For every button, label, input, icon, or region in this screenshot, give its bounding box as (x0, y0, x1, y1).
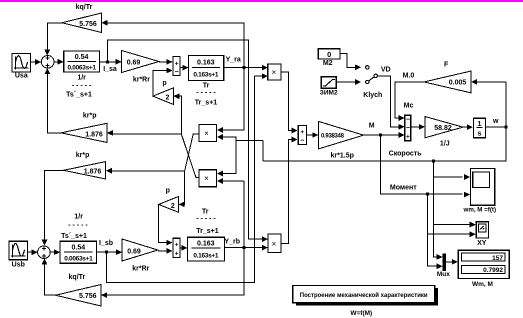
wire Y_rb up to M2 in2 (243, 181, 245, 248)
wire sum M out (306, 134, 313, 136)
svg-text:Mc: Mc (404, 103, 414, 110)
wire w feedback to products (263, 127, 506, 161)
constant block M2 (value 0) (318, 49, 340, 59)
wire M to XY in2 (428, 233, 471, 235)
gain p (b) value 2 (159, 197, 179, 213)
svg-text:Ts´_s+1: Ts´_s+1 (61, 233, 87, 240)
wire sum Mc out (411, 126, 420, 128)
svg-text:- - - - -: - - - - - (72, 83, 92, 90)
svg-text:−: − (175, 69, 179, 76)
svg-text:1.876: 1.876 (84, 169, 102, 176)
svg-text:w: w (492, 118, 499, 125)
svg-text:0.69: 0.69 (127, 59, 141, 66)
svg-text:Tr_s+1: Tr_s+1 (196, 228, 218, 235)
transfer function block Tr (b): 0.163/(0.163s+1) (188, 237, 225, 261)
source block Usa (sine wave) (12, 54, 31, 73)
product block Ma (Y_ra x I_sb) (268, 64, 281, 80)
wire crossing H2 to kr*p b (112, 170, 185, 172)
svg-text:157: 157 (492, 255, 503, 262)
wire kr*p a to sum A1 (47, 70, 61, 133)
wire Y_ra down to product M1 (217, 68, 244, 130)
wire crossing H1 to kr*p a (113, 133, 182, 135)
wire M down to Mux in2 (428, 194, 438, 266)
wire sum B1 to TF 1/r b (50, 251, 59, 253)
svg-text:−: − (406, 117, 410, 124)
svg-text:kr*1.5p: kr*1.5p (331, 153, 354, 160)
svg-text:0: 0 (327, 50, 331, 59)
integrator block 1/s (474, 118, 486, 138)
wire w out (486, 126, 506, 128)
wire gain a to sum A2 (159, 61, 172, 63)
transfer function block Tr (a): 0.163/(0.163s+1) (188, 56, 223, 81)
wire I_sb out (97, 251, 122, 253)
svg-text:+: + (406, 134, 410, 141)
svg-text:M.0: M.0 (403, 73, 415, 80)
svg-text:kr*Rr: kr*Rr (133, 77, 150, 84)
svg-text:×: × (204, 174, 209, 183)
wire w to M2 in1 (217, 140, 235, 173)
wire M.0 to sum Mc (395, 82, 424, 118)
gain 1/J 58.82 (425, 117, 463, 138)
sum block B2 (+ +) (173, 238, 180, 257)
ramp source block ZI M2 (321, 77, 336, 89)
svg-text:M: M (369, 122, 375, 129)
svg-text:wm, M =f(t): wm, M =f(t) (463, 207, 496, 214)
svg-text:0.0063s+1: 0.0063s+1 (67, 65, 96, 72)
svg-text:0.938348: 0.938348 (321, 134, 345, 140)
svg-text:Ts´_s+1: Ts´_s+1 (66, 92, 92, 99)
svg-text:W=f(M): W=f(M) (350, 310, 372, 317)
wire w up to F (505, 82, 507, 127)
svg-text:5.756: 5.756 (79, 21, 97, 28)
svg-text:+: + (175, 250, 179, 257)
wire Mux to display (446, 261, 453, 263)
title box shadow (296, 288, 438, 305)
wire Y_ra to kq/Tr a (107, 23, 244, 68)
svg-text:F: F (444, 62, 449, 69)
wire kr*p b to sum B1 (45, 170, 64, 244)
svg-text:+: + (175, 60, 179, 67)
svg-text:5.756: 5.756 (79, 293, 97, 300)
svg-text:−: − (300, 138, 304, 145)
wire 1/J to integrator (463, 126, 468, 128)
sum block B1 (round) (38, 246, 51, 259)
svg-text:p: p (166, 188, 170, 195)
wire w down to Mux in1 (434, 161, 438, 257)
wire gain 2b to sum B2 (159, 204, 172, 242)
product block M2 (w x Y_rb), inputs on right (199, 170, 217, 187)
wire Mc to sum Mc (377, 76, 399, 127)
svg-text:−: − (406, 125, 410, 132)
wire to gain 2a input (174, 96, 181, 134)
svg-text:1/J: 1/J (440, 141, 450, 148)
svg-text:kr*p: kr*p (76, 152, 90, 159)
gain F 0.005 (424, 71, 471, 93)
wire Usa to sum A1 (31, 61, 42, 63)
wire gain b to sum B2 (158, 250, 172, 252)
svg-text:Mux: Mux (437, 271, 450, 278)
svg-text:0.0063s+1: 0.0063s+1 (64, 255, 93, 262)
sum block A2 (+ -) (173, 57, 180, 76)
wire w jog (236, 139, 263, 141)
svg-text:Usb: Usb (12, 262, 25, 269)
svg-text:0.7992: 0.7992 (483, 267, 503, 274)
gain kq/Tr (a) 5.756 (62, 13, 102, 33)
svg-text:×: × (272, 240, 277, 249)
svg-text:1.876: 1.876 (85, 132, 103, 139)
wire Y_rb to M2 in2 (217, 180, 244, 182)
svg-text:kr*p: kr*p (83, 113, 97, 120)
gain p (a) value 2 (153, 88, 173, 105)
svg-text:s: s (478, 131, 482, 138)
wire Y_rb to kq/Tr b (107, 248, 244, 296)
wire sum A2 to TF Tr a (180, 67, 188, 69)
product block M1 (w x Y_ra), inputs on right (199, 125, 217, 142)
wire sum A1 to TF 1/r a (54, 61, 63, 63)
wire Y_ra to product Ma (224, 67, 263, 69)
sum block A1 (round) (41, 56, 54, 69)
svg-text:1/r: 1/r (74, 214, 83, 221)
svg-text:Y_rb: Y_rb (224, 238, 240, 245)
svg-text:I_sa: I_sa (103, 66, 117, 73)
wire to gain 2b input (179, 171, 184, 205)
svg-text:Tr_s+1: Tr_s+1 (195, 100, 217, 107)
svg-text:- - - - -: - - - - - (196, 216, 216, 223)
wire kq/Tr a to sum A1 (47, 23, 62, 55)
svg-text:58.82: 58.82 (434, 125, 452, 132)
source block Usb (sine wave) (9, 241, 28, 259)
wire w to M1 in2 (217, 137, 235, 140)
top magenta window border (0, 0, 523, 2)
svg-text:0.163: 0.163 (197, 240, 215, 247)
wire Usb to sum B1 (28, 251, 38, 253)
svg-text:×: × (271, 68, 276, 77)
sum block M (+ -) (298, 126, 306, 145)
svg-text:- - - - -: - - - - - (68, 222, 88, 229)
svg-text:0.54: 0.54 (71, 244, 85, 251)
wire sum B2 to TF Tr b (180, 247, 187, 249)
sum block Mc (- - +) (405, 115, 411, 140)
wire ZI M2 to switch (336, 81, 356, 83)
svg-text:2: 2 (166, 94, 170, 101)
wire w to F (477, 81, 506, 83)
svg-text:1/r: 1/r (77, 75, 86, 82)
svg-text:I_sb: I_sb (99, 240, 113, 247)
svg-text:0.005: 0.005 (449, 80, 467, 87)
gain kr*Rr (a) 0.69 (122, 51, 159, 73)
wire M2 to switch (340, 54, 356, 68)
svg-text:Klych: Klych (363, 92, 382, 99)
scope block wm,M=f(t) (471, 169, 495, 206)
display block Wm,M (458, 250, 509, 278)
svg-text:0.163s+1: 0.163s+1 (193, 253, 219, 260)
svg-text:XY: XY (477, 240, 487, 247)
XY graph block (476, 222, 488, 238)
wire w jog vertical (262, 140, 264, 161)
svg-text:kr*Rr: kr*Rr (132, 266, 149, 273)
svg-text:0.163s+1: 0.163s+1 (193, 71, 219, 78)
wire w to scope in1 (434, 176, 463, 178)
gain kr*p (a) 1.876 (61, 123, 107, 142)
wire Mb out to sum M minus (281, 140, 293, 244)
wire I_sb feed to product Ma (107, 76, 255, 282)
wire Y_rb to product Mb (225, 247, 263, 249)
wire gain 2a to sum A2 (153, 71, 172, 97)
gain kr*1.5p 0.938348 (319, 121, 364, 148)
svg-text:+: + (300, 129, 304, 136)
manual switch Klych (366, 66, 369, 69)
wire M2 out diagonal to top (181, 134, 199, 178)
svg-text:2: 2 (171, 203, 175, 210)
gain kq/Tr (b) 5.756 (56, 285, 102, 307)
wire I_sa feed to product Mb (108, 40, 263, 239)
svg-text:Wm, M: Wm, M (472, 281, 493, 288)
svg-text:Момент: Момент (390, 185, 417, 192)
svg-text:0.163: 0.163 (197, 59, 215, 66)
wire M1 out diagonal to bottom (185, 134, 199, 171)
svg-text:×: × (204, 129, 209, 138)
transfer function block 1/r (a): 0.54/(0.0063s+1) (64, 51, 100, 72)
svg-text:Y_ra: Y_ra (226, 57, 241, 64)
wire M to sum Mc (364, 134, 400, 136)
svg-text:ЗИМ2: ЗИМ2 (320, 90, 338, 97)
svg-text:Tr: Tr (202, 209, 209, 216)
wire I_sa out (100, 61, 122, 63)
svg-text:0.69: 0.69 (127, 248, 141, 255)
svg-text:Скорость: Скорость (389, 150, 423, 157)
svg-text:kq/Tr: kq/Tr (69, 274, 86, 281)
svg-text:kq/Tr: kq/Tr (76, 4, 93, 11)
gain kr*Rr (b) 0.69 (122, 239, 158, 261)
svg-text:p: p (162, 80, 166, 87)
svg-text:Usa: Usa (15, 73, 28, 80)
svg-text:VD: VD (381, 67, 391, 74)
wire Ma out to sum M plus (281, 72, 293, 131)
transfer function block 1/r (b): 0.54/(0.0063s+1) (60, 241, 97, 263)
title box (293, 286, 435, 303)
product block Mb (Y_rb x I_sa) (268, 234, 281, 253)
svg-text:+: + (175, 241, 179, 248)
wire kq/Tr b to sum B1 (45, 260, 56, 295)
svg-text:Построение механической характ: Построение механической характеристики (300, 292, 428, 299)
svg-text:Tr: Tr (203, 83, 210, 90)
wire w to XY in1 (434, 224, 471, 226)
Mux block (443, 254, 447, 272)
wire M to scope in2 (380, 135, 462, 194)
gain kr*p (b) 1.876 (63, 162, 105, 179)
svg-text:- - - - -: - - - - - (196, 90, 216, 97)
wire I_sb to Ma in2 (254, 75, 262, 77)
svg-text:0.54: 0.54 (75, 54, 89, 61)
svg-text:M2: M2 (323, 60, 333, 67)
